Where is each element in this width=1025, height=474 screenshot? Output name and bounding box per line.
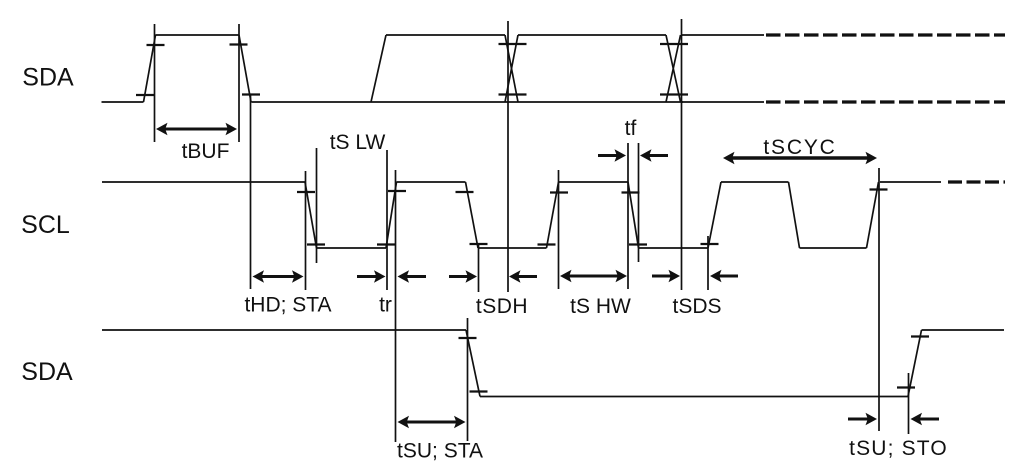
svg-text:tBUF: tBUF	[182, 140, 230, 163]
svg-text:tSDS: tSDS	[672, 295, 721, 318]
svg-text:tf: tf	[625, 117, 637, 140]
svg-text:tSDH: tSDH	[476, 295, 528, 318]
svg-text:tSCYC: tSCYC	[763, 136, 836, 159]
svg-text:tSU; STA: tSU; STA	[397, 440, 483, 463]
svg-text:tS HW: tS HW	[570, 295, 631, 318]
svg-text:tr: tr	[379, 294, 392, 317]
svg-text:SCL: SCL	[21, 211, 70, 239]
svg-text:tSU; STO: tSU; STO	[849, 437, 948, 460]
svg-text:tS LW: tS LW	[330, 131, 386, 154]
svg-text:tHD; STA: tHD; STA	[244, 294, 331, 317]
svg-text:SDA: SDA	[21, 358, 73, 386]
svg-text:SDA: SDA	[22, 64, 74, 92]
